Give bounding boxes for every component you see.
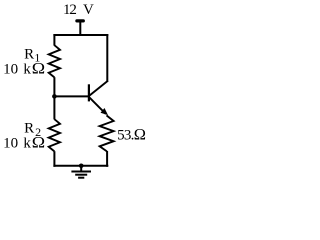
- svg-text:Ω: Ω: [134, 127, 146, 143]
- transistor Q1 emitter stroke: [89, 97, 106, 114]
- svg-text:Ω: Ω: [32, 134, 45, 152]
- wire right vertical (collector feed): [106, 34, 108, 82]
- svg-text:10k: 10k: [3, 61, 31, 77]
- svg-text:53.: 53.: [117, 128, 134, 144]
- transistor Q1 base bar: [88, 84, 90, 101]
- svg-text:12V: 12V: [63, 2, 94, 18]
- wire supply stub: [79, 22, 81, 36]
- resistor R1: [49, 45, 60, 77]
- ground stub: [80, 166, 82, 171]
- transistor Q1 emitter arrowhead: [101, 108, 109, 115]
- resistor R2: [49, 119, 60, 151]
- wire RE bottom lead: [106, 151, 108, 167]
- supply terminal bar: [77, 19, 83, 22]
- wire top horizontal: [53, 34, 108, 36]
- ground bar 2: [75, 174, 87, 176]
- ground bar 3: [78, 177, 84, 179]
- wire left bottom segment: [53, 151, 55, 167]
- wire left middle segment: [53, 77, 55, 119]
- svg-text:Ω: Ω: [32, 60, 45, 78]
- node ground junction dot: [79, 164, 84, 169]
- ground bar 1: [71, 171, 91, 173]
- wire left drop to R1: [53, 34, 55, 46]
- transistor Q1 collector stroke: [89, 81, 108, 96]
- wire base: [54, 95, 89, 97]
- svg-text:10k: 10k: [3, 135, 31, 151]
- resistor RE 53 Ohm: [100, 115, 114, 151]
- wire bottom horizontal: [53, 165, 108, 167]
- node base junction dot: [52, 94, 57, 99]
